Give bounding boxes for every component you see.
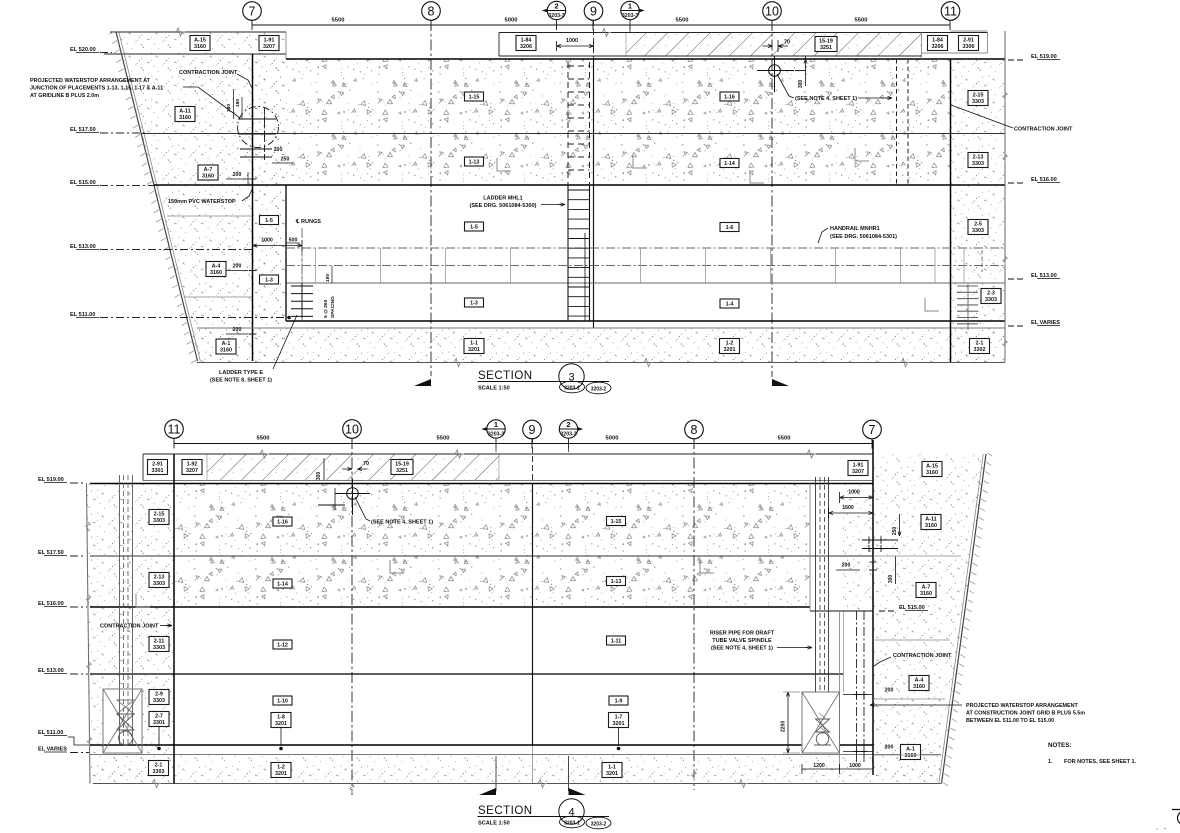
svg-text:5500: 5500 (332, 18, 345, 24)
EL 517.50 level line (141, 133, 1005, 135)
berm top line (110, 31, 286, 33)
svg-text:(SEE NOTE 4, SHEET 1): (SEE NOTE 4, SHEET 1) (711, 646, 773, 652)
svg-text:2-3: 2-3 (987, 290, 995, 296)
svg-text:2-15: 2-15 (154, 511, 165, 517)
pipe shaft left edge (809, 484, 811, 612)
label box A-11/3160 (175, 107, 195, 122)
svg-text:3207: 3207 (263, 44, 275, 50)
svg-text:250: 250 (281, 157, 290, 163)
svg-text:3160: 3160 (179, 115, 191, 121)
svg-text:5500: 5500 (676, 18, 689, 24)
svg-text:3160: 3160 (920, 591, 932, 597)
label box A-15/3160 (190, 36, 210, 51)
svg-text:2-7: 2-7 (155, 713, 163, 719)
svg-text:3201: 3201 (724, 347, 736, 353)
flag 1 line sec4 (495, 438, 497, 452)
section flag 1/3203-3 sec4 (481, 424, 498, 435)
valve bowtie left upper (117, 700, 134, 714)
left column concrete texture (87, 483, 175, 784)
svg-text:5500: 5500 (257, 436, 270, 442)
EL 517.50 line sec4 (90, 555, 873, 557)
label box A-7/3160 sec4 (916, 583, 936, 598)
svg-text:200: 200 (274, 147, 283, 153)
svg-text:1-3: 1-3 (265, 278, 273, 284)
svg-text:A-4: A-4 (212, 263, 221, 269)
svg-text:5500: 5500 (778, 436, 791, 442)
svg-text:1-5: 1-5 (470, 225, 478, 231)
svg-text:(SEE NOTE 8, SHEET 1): (SEE NOTE 8, SHEET 1) (210, 378, 272, 384)
svg-text:3201: 3201 (275, 771, 287, 777)
svg-text:A-1: A-1 (906, 746, 915, 752)
label box 2-1/3302 (970, 339, 990, 354)
grid bubble 11 (941, 2, 960, 21)
label box 2-13/3303 (968, 153, 988, 168)
grid 8 section pennant (414, 379, 431, 386)
label box A-1/3160 (216, 339, 236, 354)
roof strip left edge (142, 454, 144, 481)
svg-text:1-2: 1-2 (277, 764, 285, 770)
svg-text:3251: 3251 (820, 45, 832, 51)
label box 1-6 (720, 223, 739, 232)
svg-text:1-8: 1-8 (277, 714, 285, 720)
svg-text:3303: 3303 (153, 581, 165, 587)
rungs centerline (301, 228, 303, 322)
svg-text:2: 2 (566, 420, 570, 429)
svg-text:2-15: 2-15 (973, 92, 984, 98)
contraction joint dash-dot pair sec4 (856, 611, 858, 762)
svg-text:1500: 1500 (842, 505, 854, 511)
svg-text:3206: 3206 (932, 44, 944, 50)
bottom slab top line sec4 (90, 754, 941, 756)
svg-text:3303: 3303 (153, 698, 165, 704)
dim line 1200/1000 bottom (802, 768, 873, 770)
svg-text:2-91: 2-91 (963, 37, 974, 43)
label box 2-5/3303 (968, 220, 988, 235)
label box A-11/3160 sec4 (921, 515, 941, 530)
section 4 drawing group (38, 420, 1137, 829)
svg-text:3203-1: 3203-1 (564, 820, 580, 826)
grid line 8 (dash-dot) (430, 20, 432, 376)
corner placement marks (633, 155, 647, 168)
grid line 9 upper dashed (593, 20, 595, 59)
svg-text:1000: 1000 (261, 238, 273, 244)
grid bubble 7 (243, 2, 262, 21)
svg-text:5 @ 260: 5 @ 260 (323, 299, 329, 318)
svg-text:1-16: 1-16 (277, 520, 288, 526)
right column top lines (951, 30, 988, 32)
right-center label boxes sec4 (607, 517, 626, 526)
label box 1-16 (720, 92, 739, 101)
svg-text:3303: 3303 (153, 769, 165, 775)
handrail posts (301, 248, 303, 283)
svg-text:1000: 1000 (566, 38, 578, 44)
svg-text:10: 10 (345, 422, 359, 436)
tower blockout white (103, 689, 142, 753)
pipe blockout white right (810, 479, 839, 611)
step at x=286 (285, 32, 287, 59)
svg-text:3203-1: 3203-1 (564, 385, 580, 391)
EL 520.00 ground line (104, 53, 286, 55)
label box A-4/3160 sec4 (909, 676, 929, 691)
svg-text:2-91: 2-91 (152, 461, 163, 467)
svg-text:A-1: A-1 (222, 341, 231, 347)
label box 1-91/3207 sec4 (848, 461, 868, 476)
grid bubble 11 (165, 420, 184, 439)
svg-text:AT CONSTRUCTION JOINT GRID B P: AT CONSTRUCTION JOINT GRID B PLUS 5.5m (966, 711, 1085, 717)
svg-text:8: 8 (691, 423, 698, 437)
svg-text:3160: 3160 (194, 44, 206, 50)
grid bubble 10 (343, 420, 362, 439)
grid 10 section pennant (772, 379, 789, 386)
section 3 drawing group (30, 1, 1073, 394)
svg-text:1-11: 1-11 (611, 639, 622, 645)
svg-text:9: 9 (529, 423, 536, 437)
hatched roof strip section 4 (207, 454, 499, 481)
right wall column texture (950, 59, 1005, 362)
svg-text:5500: 5500 (437, 436, 450, 442)
svg-text:3303: 3303 (153, 645, 165, 651)
svg-text:3160: 3160 (210, 270, 222, 276)
grid line 9 upper dashed sec4 (532, 438, 534, 483)
svg-text:NOTES:: NOTES: (1048, 742, 1071, 749)
see note 4 leader (777, 74, 794, 98)
EL 515 step line (810, 610, 873, 612)
gallery top line EL 515 (154, 184, 1005, 186)
svg-text:1-84: 1-84 (521, 37, 532, 43)
grid line 8 dash-dot sec4 (693, 438, 695, 790)
contraction joint dashed pair near grid 11 (896, 59, 898, 185)
svg-text:300: 300 (888, 575, 894, 584)
flag2 pennant sec4 (569, 788, 586, 795)
corner marks sec4 (136, 594, 150, 607)
svg-text:CONTRACTION JOINT: CONTRACTION JOINT (1014, 127, 1073, 133)
svg-text:3303: 3303 (972, 161, 984, 167)
lower line 745 (90, 744, 873, 746)
grid bubble 7 (863, 420, 882, 439)
label box 2-15/3303 (968, 91, 988, 106)
grid line 9 contraction joint solid sec4 (532, 483, 534, 745)
svg-text:3203-3: 3203-3 (560, 432, 576, 438)
svg-text:200: 200 (842, 563, 851, 569)
svg-text:HANDRAIL MNHR1: HANDRAIL MNHR1 (830, 226, 880, 232)
label box A-7/3160 (198, 165, 218, 180)
svg-text:340: 340 (226, 104, 232, 112)
crosshair waterstop at grid 10 sec4 (347, 488, 359, 500)
svg-text:150: 150 (235, 99, 241, 107)
svg-text:CONTRACTION JOINT: CONTRACTION JOINT (100, 624, 159, 630)
svg-text:70: 70 (784, 40, 790, 46)
svg-text:3203-2: 3203-2 (591, 821, 607, 827)
svg-text:1-15: 1-15 (611, 519, 622, 525)
svg-text:3306: 3306 (963, 44, 975, 50)
grid bubble 9 (584, 2, 603, 21)
handrail posts in right column (dashed) (963, 248, 965, 283)
svg-text:SECTION: SECTION (478, 370, 533, 382)
grid 7 wall face sec4 (872, 440, 874, 775)
right slope tick hatching (988, 453, 993, 456)
svg-text:150mm PVC WATERSTOP: 150mm PVC WATERSTOP (168, 199, 236, 205)
svg-text:(SEE DRG. 5061084-5300): (SEE DRG. 5061084-5300) (470, 203, 537, 209)
waterstop cross rows at wall (862, 539, 898, 541)
svg-text:3201: 3201 (275, 721, 287, 727)
svg-text:1-2: 1-2 (726, 340, 734, 346)
svg-text:10: 10 (765, 4, 779, 18)
svg-text:3160: 3160 (926, 470, 938, 476)
dim 2200 vertical (787, 692, 789, 753)
grid dimension line (252, 24, 950, 26)
handrail top rail (dash-dot) (286, 247, 1005, 249)
X-braced tower left (103, 689, 142, 753)
svg-text:1-9: 1-9 (615, 699, 623, 705)
handrail mid rail (dash-dot) (286, 265, 1005, 267)
EL 513 line sec4 (90, 673, 843, 675)
svg-text:SCALE 1:50: SCALE 1:50 (478, 386, 510, 392)
svg-text:1-1: 1-1 (608, 764, 616, 770)
riser pipe inner dashed lines (819, 477, 821, 738)
svg-text:11: 11 (944, 4, 957, 18)
svg-text:1-92: 1-92 (187, 461, 198, 467)
svg-text:8: 8 (428, 4, 435, 18)
grid 11 wall face sec4 (173, 454, 175, 784)
projected waterstop long leader (874, 704, 962, 706)
ladder MHL1 rungs lower (568, 189, 590, 191)
svg-text:3207: 3207 (186, 468, 198, 474)
label box 1-3 (left) (260, 275, 279, 284)
berm intermediate line 2 (184, 296, 252, 298)
waterstop detail inner lines (264, 108, 266, 148)
grid 11 wall face (950, 59, 952, 362)
left excavation slope line (116, 32, 198, 361)
svg-text:PROJECTED WATERSTOP ARRANGEMEN: PROJECTED WATERSTOP ARRANGEMENT AT (30, 78, 151, 84)
svg-text:PROJECTED WATERSTOP ARRANGEMEN: PROJECTED WATERSTOP ARRANGEMENT (966, 703, 1079, 709)
svg-text:3201: 3201 (613, 721, 625, 727)
label box 1-91/3207 (259, 36, 279, 51)
svg-text:AT GRIDLINE B PLUS 2.0m: AT GRIDLINE B PLUS 2.0m (30, 93, 99, 99)
roof strip bottom line sec4 (143, 480, 873, 482)
section flag 2/3203-3 (542, 5, 559, 16)
svg-text:3203-3: 3203-3 (622, 13, 638, 19)
svg-text:1.: 1. (1048, 759, 1053, 765)
svg-text:A-11: A-11 (179, 108, 190, 114)
flag1 pennant sec4 (479, 788, 496, 795)
see note 4 leader sec4 (355, 497, 370, 521)
right abutment texture (873, 454, 986, 784)
label box 1-2/3201 (720, 339, 740, 354)
roof strip left edge (498, 33, 500, 57)
svg-text:7: 7 (249, 4, 256, 18)
waterstop detail circle at grid 7 (238, 107, 279, 148)
svg-text:JUNCTION OF PLACEMENTS 1-13, 1: JUNCTION OF PLACEMENTS 1-13, 1-15, 1-17 … (30, 86, 163, 92)
upper concrete band texture (1-16/1-14) (174, 483, 810, 607)
svg-text:A-15: A-15 (194, 37, 206, 43)
label box 1-15 (465, 92, 484, 101)
label box 1-13 (465, 157, 484, 166)
svg-text:15-19: 15-19 (819, 38, 833, 44)
crosshair waterstop symbol at grid 10 (769, 65, 781, 77)
svg-text:1-10: 1-10 (277, 699, 288, 705)
label box 1-4 (720, 299, 739, 308)
main upper concrete band texture (1-15/1-16) (286, 59, 950, 185)
svg-text:1-4: 1-4 (726, 302, 734, 308)
label box 1-84/3206 (left) (516, 36, 536, 51)
svg-text:3160: 3160 (905, 753, 917, 759)
roof strip top line sec4 (143, 453, 873, 455)
label box A-1/3160 sec4 (901, 745, 921, 760)
grid line 10 dash-dot sec4 (351, 438, 353, 795)
label box 1-5 (center) (465, 222, 484, 231)
svg-text:TUBE VALVE SPINDLE: TUBE VALVE SPINDLE (712, 638, 772, 644)
svg-text:2-1: 2-1 (976, 340, 984, 346)
svg-text:7: 7 (869, 423, 876, 437)
label box 1-1/3201 (464, 339, 484, 354)
gallery floor line EL 513 (286, 282, 1005, 284)
berm intermediate line 1 (167, 215, 252, 217)
svg-text:2-5: 2-5 (974, 221, 982, 227)
label box 2-3/3303 (981, 289, 1001, 304)
svg-text:3207: 3207 (852, 469, 864, 475)
grid 7 wall face line (252, 54, 254, 361)
svg-text:1200: 1200 (813, 763, 825, 769)
label box 1-84/3206 (right) (928, 36, 948, 51)
label boxes left column sec4 (149, 510, 169, 525)
svg-text:5000: 5000 (505, 18, 518, 24)
gallery left wall (285, 185, 287, 321)
svg-text:200: 200 (885, 745, 894, 751)
svg-text:250: 250 (892, 527, 898, 536)
right wall strip texture (843, 483, 875, 611)
svg-text:3201: 3201 (606, 771, 618, 777)
ladder MHL1 rails lower solid portion (567, 185, 569, 321)
svg-text:RISER PIPE FOR DRAFT: RISER PIPE FOR DRAFT (710, 631, 775, 637)
bottom slab strip texture (90, 755, 941, 784)
svg-text:1-3: 1-3 (470, 301, 478, 307)
svg-text:1-91: 1-91 (264, 37, 275, 43)
svg-text:200: 200 (233, 327, 242, 333)
svg-text:1-5: 1-5 (265, 218, 273, 224)
svg-text:1-13: 1-13 (611, 579, 622, 585)
EL 516.00 gallery top line (90, 606, 810, 608)
svg-text:3303: 3303 (985, 297, 997, 303)
svg-text:3201: 3201 (468, 347, 480, 353)
svg-text:3206: 3206 (520, 44, 532, 50)
svg-text:3251: 3251 (396, 468, 408, 474)
svg-text:1-14: 1-14 (724, 161, 735, 167)
bottom slab strip texture (197, 328, 1005, 362)
ladder MHL1 rails upper dashed portion (567, 62, 569, 185)
grid bubble 8 (422, 2, 441, 21)
svg-text:5000: 5000 (606, 436, 619, 442)
label box 15-19/3251 sec4 (391, 460, 413, 475)
svg-text:3160: 3160 (220, 347, 232, 353)
ladder type E rungs (291, 285, 313, 287)
bottom slab bottom line (197, 362, 1005, 364)
left berm concrete texture (116, 32, 286, 361)
svg-text:1-13: 1-13 (469, 160, 480, 166)
svg-text:180: 180 (325, 274, 331, 282)
roof strip verticals right (921, 33, 923, 60)
svg-text:15-19: 15-19 (395, 461, 409, 467)
svg-text:1-7: 1-7 (615, 714, 623, 720)
svg-text:9: 9 (590, 4, 597, 18)
hatched roof strip (626, 33, 921, 57)
svg-text:A-11: A-11 (925, 516, 936, 522)
grid line 10 (dash-dot) (771, 20, 773, 377)
center label boxes sec4 (273, 517, 292, 526)
svg-text:A-4: A-4 (915, 677, 924, 683)
svg-text:3160: 3160 (913, 684, 925, 690)
column between grid7 wall and gallery texture (252, 59, 286, 361)
svg-text:3303: 3303 (972, 99, 984, 105)
label box 1-5 (left) (260, 216, 279, 225)
svg-text:SCALE 1:50: SCALE 1:50 (478, 821, 510, 827)
right column outer edge (1004, 31, 1006, 362)
label box 15-19/3251 (815, 37, 837, 52)
wall inner line at 839 (839, 611, 841, 769)
svg-text:1-15: 1-15 (469, 95, 480, 101)
valve bowtie right (816, 719, 830, 732)
svg-text:3303: 3303 (153, 518, 165, 524)
svg-text:LADDER MHL1: LADDER MHL1 (483, 196, 522, 202)
svg-text:1-1: 1-1 (470, 340, 478, 346)
right column ladder ticks (967, 284, 969, 330)
svg-text:SPACING: SPACING (330, 296, 336, 318)
svg-text:11: 11 (168, 422, 181, 436)
svg-text:1: 1 (628, 2, 632, 11)
svg-text:3203-3: 3203-3 (548, 13, 564, 19)
svg-text:A-7: A-7 (204, 167, 213, 173)
svg-text:3203-3: 3203-3 (488, 432, 504, 438)
svg-text:200: 200 (233, 264, 242, 270)
section flag 1/3203-3 (628, 5, 645, 16)
section flag 2/3203-3 sec4 (567, 424, 584, 435)
svg-text:300: 300 (798, 80, 804, 89)
svg-text:SECTION: SECTION (478, 805, 533, 817)
svg-text:2-13: 2-13 (154, 574, 165, 580)
svg-text:A-7: A-7 (922, 584, 931, 590)
svg-text:200: 200 (885, 688, 894, 694)
right column horizontal lines (873, 555, 961, 557)
svg-text:3160: 3160 (925, 523, 937, 529)
svg-text:3203-2: 3203-2 (591, 386, 607, 392)
svg-text:300: 300 (316, 472, 322, 481)
svg-text:3160: 3160 (202, 173, 214, 179)
left column outer edge (87, 483, 91, 784)
label box A-4/3160 (206, 262, 226, 277)
svg-text:BETWEEN EL 511.00 TO EL 515.00: BETWEEN EL 511.00 TO EL 515.00 (966, 718, 1054, 724)
svg-text:1-6: 1-6 (726, 225, 734, 231)
svg-text:(SEE DRG. 5061084-5301): (SEE DRG. 5061084-5301) (830, 234, 897, 240)
lower band bottom line (286, 320, 1005, 322)
label box 1-14 (720, 159, 739, 168)
bottom slab bottom line sec4 (93, 783, 941, 785)
svg-text:CONTRACTION JOINT: CONTRACTION JOINT (893, 653, 952, 659)
label box 2-91/3301 (148, 460, 168, 475)
label box A-15/3160 sec4 (922, 462, 942, 477)
flag 1 reference line (629, 20, 631, 32)
grid dimension line sec4 (174, 443, 872, 445)
svg-text:(SEE NOTE 4, SHEET 1): (SEE NOTE 4, SHEET 1) (371, 520, 433, 526)
X-braced draft tube blockout right (802, 692, 840, 753)
svg-text:1-14: 1-14 (277, 582, 288, 588)
svg-text:℄ RUNGS: ℄ RUNGS (295, 218, 321, 225)
valve bowtie left (117, 714, 134, 730)
right slope edge (942, 454, 987, 784)
partial title block edge bottom right (1172, 809, 1180, 811)
svg-text:500: 500 (289, 238, 298, 244)
grid bubble 10 (763, 2, 782, 21)
svg-text:LADDER TYPE E: LADDER TYPE E (219, 370, 263, 376)
svg-text:(SEE NOTE 4, SHEET 1): (SEE NOTE 4, SHEET 1) (795, 96, 857, 102)
